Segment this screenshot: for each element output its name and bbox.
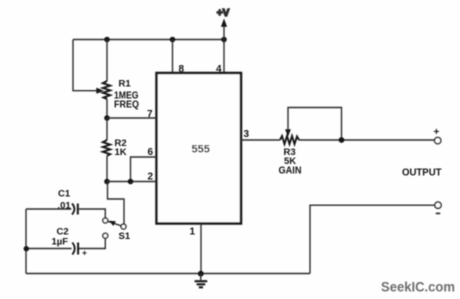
ground [200, 274, 202, 280]
wire top supply rail [73, 39, 224, 41]
wire pin 8 stub [172, 40, 174, 74]
capacitor C1 .01 [72, 204, 74, 215]
node junction dot pin6/pin2 tie [128, 179, 134, 185]
svg-text:OUTPUT: OUTPUT [402, 168, 442, 179]
node junction dot C2 on left rail [24, 246, 29, 251]
wire pin 2 [107, 181, 157, 183]
wire left vertical rail C1/C2 [25, 209, 27, 274]
wire rail down to switch pole [108, 182, 125, 224]
wire output return [310, 205, 435, 273]
node junction dot ground [198, 271, 204, 277]
svg-text:1K: 1K [115, 147, 127, 158]
R3 wiper arrowhead [285, 129, 291, 136]
wire pin 7 [107, 117, 157, 119]
+V supply arrow [223, 26, 225, 40]
switch S1 throw contact C1 [103, 218, 108, 223]
switch S1 throw contact C2 [103, 233, 108, 238]
svg-text:FREQ: FREQ [114, 100, 139, 111]
svg-text:6: 6 [148, 147, 154, 158]
switch S1 arm with arrowhead [108, 221, 121, 225]
wire C2 right lead up to switch throw [79, 238, 105, 248]
resistor R2 1K zigzag [103, 140, 110, 156]
node junction dot at R1 top on supply rail [104, 37, 110, 43]
svg-text:R1: R1 [119, 79, 132, 90]
svg-text:GAIN: GAIN [279, 166, 302, 177]
node junction dot pin 2 rail [104, 179, 110, 185]
svg-text:2: 2 [148, 172, 154, 183]
resistor R1 1MEG potentiometer zigzag [103, 81, 110, 99]
svg-text:1: 1 [190, 227, 196, 238]
svg-text:555: 555 [192, 144, 210, 156]
wire C1 right lead to switch throw [79, 209, 106, 218]
resistor R3 5K gain pot zigzag [280, 136, 299, 144]
wire pin7 node down to R2 [106, 118, 108, 140]
wire pin 6 stub with jog down to pin2 wire [131, 157, 157, 182]
op-amp U1 555 timer IC body [157, 73, 242, 224]
svg-text:7: 7 [147, 109, 153, 120]
wire bottom ground bus [26, 273, 310, 275]
wire R3 wiper feedback loop [288, 108, 342, 141]
wire pin 4 stub [223, 40, 225, 74]
node junction dot pin4 / +V branch [221, 37, 227, 43]
wire C2 left lead [26, 248, 72, 250]
svg-text:C1: C1 [58, 189, 71, 200]
wire R2 bottom to pin2 node [106, 156, 108, 182]
node junction dot pin8 branch [170, 37, 176, 43]
svg-text:1µF: 1µF [52, 237, 69, 248]
svg-text:S1: S1 [119, 231, 131, 242]
output terminal + [435, 137, 441, 143]
wire pin 1 stub [200, 224, 202, 274]
capacitor C2 1uF polarized [72, 243, 74, 255]
svg-text:+V: +V [217, 8, 230, 19]
wire R3 right side to output [299, 139, 435, 141]
node junction dot pin 7 [104, 115, 110, 121]
output terminal - [435, 202, 441, 208]
switch S1 pole contact [121, 224, 126, 229]
svg-text:+: + [434, 127, 440, 138]
svg-text:3: 3 [244, 129, 250, 140]
wire R1 bottom to pin7 node [106, 99, 108, 118]
wire R1 wiper feedback left leg [73, 40, 99, 91]
node junction dot R3 loop tie [339, 137, 345, 143]
wire pin 3 output [241, 139, 280, 141]
R1 wiper arrowhead [96, 88, 104, 94]
svg-text:SeekIC.com: SeekIC.com [381, 279, 455, 295]
svg-text:.01: .01 [58, 201, 72, 212]
wire C1 left lead [26, 208, 71, 210]
wire left rail from supply to R1 [106, 40, 108, 82]
